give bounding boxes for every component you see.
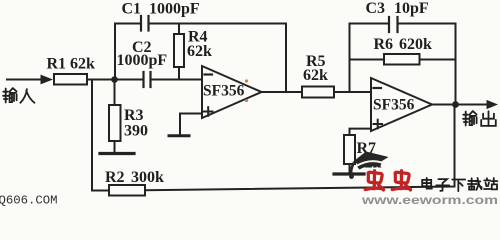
wire left drop to bottom rail bbox=[91, 80, 93, 191]
svg-text:R3: R3 bbox=[124, 107, 144, 124]
watermark site name (Chinese dian-zi-xia-zai-zhan) bbox=[422, 178, 497, 191]
ground (R3) bbox=[100, 152, 134, 155]
ground (R7) bbox=[334, 172, 364, 175]
svg-text:R2: R2 bbox=[105, 169, 125, 186]
resistor R1 bbox=[54, 74, 87, 85]
capacitor C3 bbox=[389, 17, 398, 32]
wire node A up to C1 rail bbox=[115, 24, 141, 80]
svg-text:62k: 62k bbox=[303, 67, 328, 84]
wire opamp2 output to node B bbox=[432, 104, 456, 106]
capacitor C2 bbox=[144, 72, 151, 87]
svg-text:62k: 62k bbox=[187, 43, 212, 60]
svg-text:C3: C3 bbox=[366, 0, 386, 17]
label input (Chinese shu-ru) bbox=[3, 88, 35, 103]
wire opamp1 plus input to ground bbox=[180, 114, 202, 136]
svg-text:10pF: 10pF bbox=[394, 0, 429, 17]
svg-text:R1: R1 bbox=[47, 56, 67, 73]
watermark speck 1 bbox=[245, 79, 248, 82]
wire C3 rail right bbox=[398, 24, 456, 105]
resistor R7 bbox=[344, 135, 355, 174]
op-amp U1 minus pin bbox=[205, 73, 213, 75]
node B junction dot bbox=[452, 101, 459, 108]
wire feedback riser opamp2 bbox=[349, 24, 351, 93]
svg-text:R6: R6 bbox=[374, 36, 394, 53]
svg-text:1000pF: 1000pF bbox=[117, 52, 168, 69]
svg-text:Q606.COM: Q606.COM bbox=[0, 194, 58, 208]
label output (Chinese shu-chu) bbox=[463, 111, 496, 126]
wire bottom rail to right riser bbox=[145, 105, 455, 191]
wire R5 to opamp2 inverting input bbox=[334, 91, 371, 93]
wire opamp1 output to R5 bbox=[262, 91, 303, 93]
wire R1 to node A bbox=[87, 79, 144, 81]
output arrow head bbox=[487, 100, 499, 109]
ground (op-amp U1 plus) bbox=[169, 134, 189, 137]
input arrow head bbox=[41, 75, 54, 85]
svg-text:62k: 62k bbox=[70, 56, 95, 73]
wire input lead bbox=[7, 79, 44, 81]
wire C2 to opamp1 inverting input bbox=[151, 79, 203, 81]
svg-text:SF356: SF356 bbox=[373, 97, 415, 114]
wire C3 rail left bbox=[350, 23, 390, 25]
svg-text:C1: C1 bbox=[122, 1, 142, 18]
op-amp U2 triangle bbox=[371, 78, 432, 131]
op-amp U1 triangle bbox=[202, 66, 262, 118]
watermark graduation cap logo bbox=[349, 152, 388, 179]
watermark speck 2 bbox=[245, 99, 248, 102]
resistor R6 bbox=[350, 54, 456, 65]
wire C1 to opamp1 output drop bbox=[149, 24, 287, 93]
svg-text:300k: 300k bbox=[131, 169, 164, 186]
resistor R3 bbox=[109, 80, 121, 153]
wire opamp2 plus input to R7 bbox=[350, 129, 372, 135]
svg-text:620k: 620k bbox=[399, 36, 432, 53]
watermark chongchong characters (red) bbox=[365, 171, 410, 190]
resistor R4 bbox=[174, 24, 184, 80]
op-amp U2 minus pin bbox=[374, 87, 382, 89]
svg-text:390: 390 bbox=[124, 123, 148, 140]
capacitor C1 bbox=[141, 16, 149, 31]
wire bottom rail left bbox=[92, 190, 109, 192]
resistor R5 bbox=[302, 87, 334, 98]
node A junction dot bbox=[111, 76, 118, 83]
svg-text:SF356: SF356 bbox=[203, 83, 245, 100]
wire output lead bbox=[456, 104, 489, 106]
resistor R2 bbox=[109, 185, 145, 196]
op-amp U2 plus pin bbox=[374, 120, 383, 129]
svg-text:1000pF: 1000pF bbox=[149, 1, 200, 18]
op-amp U1 plus pin bbox=[204, 107, 213, 116]
svg-text:www.eeworm.com: www.eeworm.com bbox=[361, 195, 498, 207]
